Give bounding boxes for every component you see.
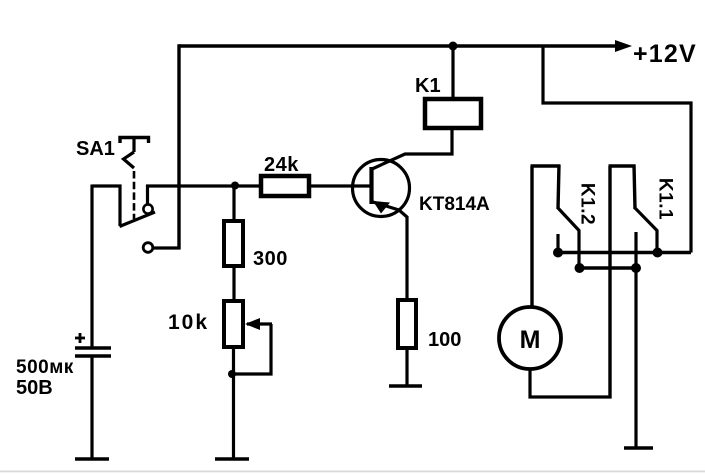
contact K1.1 arm drop [655,230,658,253]
contact K1.2 arm [558,208,580,231]
node rail-relay junction [449,42,458,51]
bus wire upper (to +12V) [558,251,691,254]
wire left segment [92,184,122,187]
wire lower contact to drop [153,246,181,249]
potentiometer R3 10k [224,301,243,347]
wire pot to ground [232,347,235,459]
svg-text:10k: 10k [168,311,209,334]
contact K1.1 fixed stub and ground wire [634,232,637,448]
node K1.2 fixed contact [553,248,563,258]
wire base to 24k [307,184,370,187]
ground pot [215,457,249,461]
switch SA1 upper stub [146,185,149,205]
contact K1.1 top bar [609,164,636,167]
wire motor loop [530,369,612,397]
switch SA1 lower contact circle [143,243,153,253]
wire rail branch right [543,45,691,253]
bus wire lower [579,266,636,269]
capacitor C1 top plate [75,346,111,350]
svg-text:500мк: 500мк [16,357,74,378]
switch SA1 dashed link [133,171,136,219]
svg-text:K1.2: K1.2 [576,183,597,225]
svg-text:+12V: +12V [633,40,697,68]
resistor R1 24k [261,176,309,196]
node K1.1 fixed contact [631,263,641,273]
capacitor polarity plus [79,333,82,343]
contact K1.1 left leg [608,166,611,399]
wire junction to 300 [232,186,235,222]
switch SA1 button zigzag [124,152,135,168]
svg-text:M: M [520,326,541,354]
wire 300 to pot [232,266,235,302]
svg-text:24k: 24k [264,154,299,176]
wire left drop from rail [177,44,180,249]
wire capacitor to ground [90,356,93,459]
switch SA1 arm [120,212,156,227]
wire relay to collector [372,128,452,169]
svg-text:100: 100 [428,329,461,351]
transistor U1 KT814A body [353,160,410,217]
contact K1.2 top bar [531,164,561,167]
pot wiper arrowhead [245,318,260,330]
wire 100 to ground [405,348,408,386]
transistor emitter arrow [373,201,390,214]
node pot bottom junction [228,370,236,378]
svg-text:50В: 50В [16,377,53,399]
wire switch to 24k [146,184,263,187]
transistor emitter wire [373,202,407,300]
node K1.1 arm on bus [653,248,663,258]
wire wiper to bottom [234,324,271,374]
ground right [624,446,653,450]
contact K1.1 right leg [634,165,635,210]
contact K1.2 right leg [558,165,559,210]
node K1.2 arm on lower bus [575,263,585,273]
transistor base bar [369,167,373,204]
resistor R2 300 [224,221,243,266]
wire switch to capacitor [90,185,93,348]
node base junction [231,182,239,190]
wire +12V rail [179,44,620,47]
motor M body [499,307,561,369]
contact K1.2 fixed stub [556,234,559,252]
+12V arrowhead [615,40,632,52]
switch SA1 button cap [120,138,149,144]
ground 100 [389,384,422,388]
contact K1.2 arm drop [577,230,580,268]
svg-text:SA1: SA1 [76,138,115,160]
ground capacitor [75,457,109,461]
svg-text:300: 300 [253,248,288,270]
resistor R4 100 [398,300,416,348]
wire relay coil to rail [451,46,454,99]
capacitor C1 bottom plate [75,354,111,358]
contact K1.2 left leg [530,166,533,307]
switch SA1 left terminal [118,185,121,227]
bottom scan line [0,471,705,473]
pot wiper wire [247,322,272,325]
svg-text:K1.1: K1.1 [654,178,675,220]
contact K1.1 arm [635,208,658,231]
relay coil K1 [425,99,481,128]
switch SA1 pivot contact circle [143,204,152,213]
svg-text:K1: K1 [415,75,441,97]
switch SA1 button stem [132,138,135,153]
svg-text:KT814A: KT814A [419,194,490,215]
